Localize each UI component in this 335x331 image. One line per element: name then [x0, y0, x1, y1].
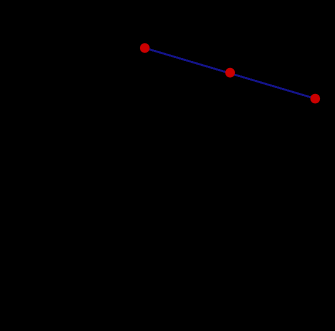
wire (blue segment through the three points) [145, 48, 315, 99]
node B (middle red point) [225, 68, 235, 78]
node A (left red point) [140, 43, 150, 53]
node C (right red point) [310, 94, 320, 104]
